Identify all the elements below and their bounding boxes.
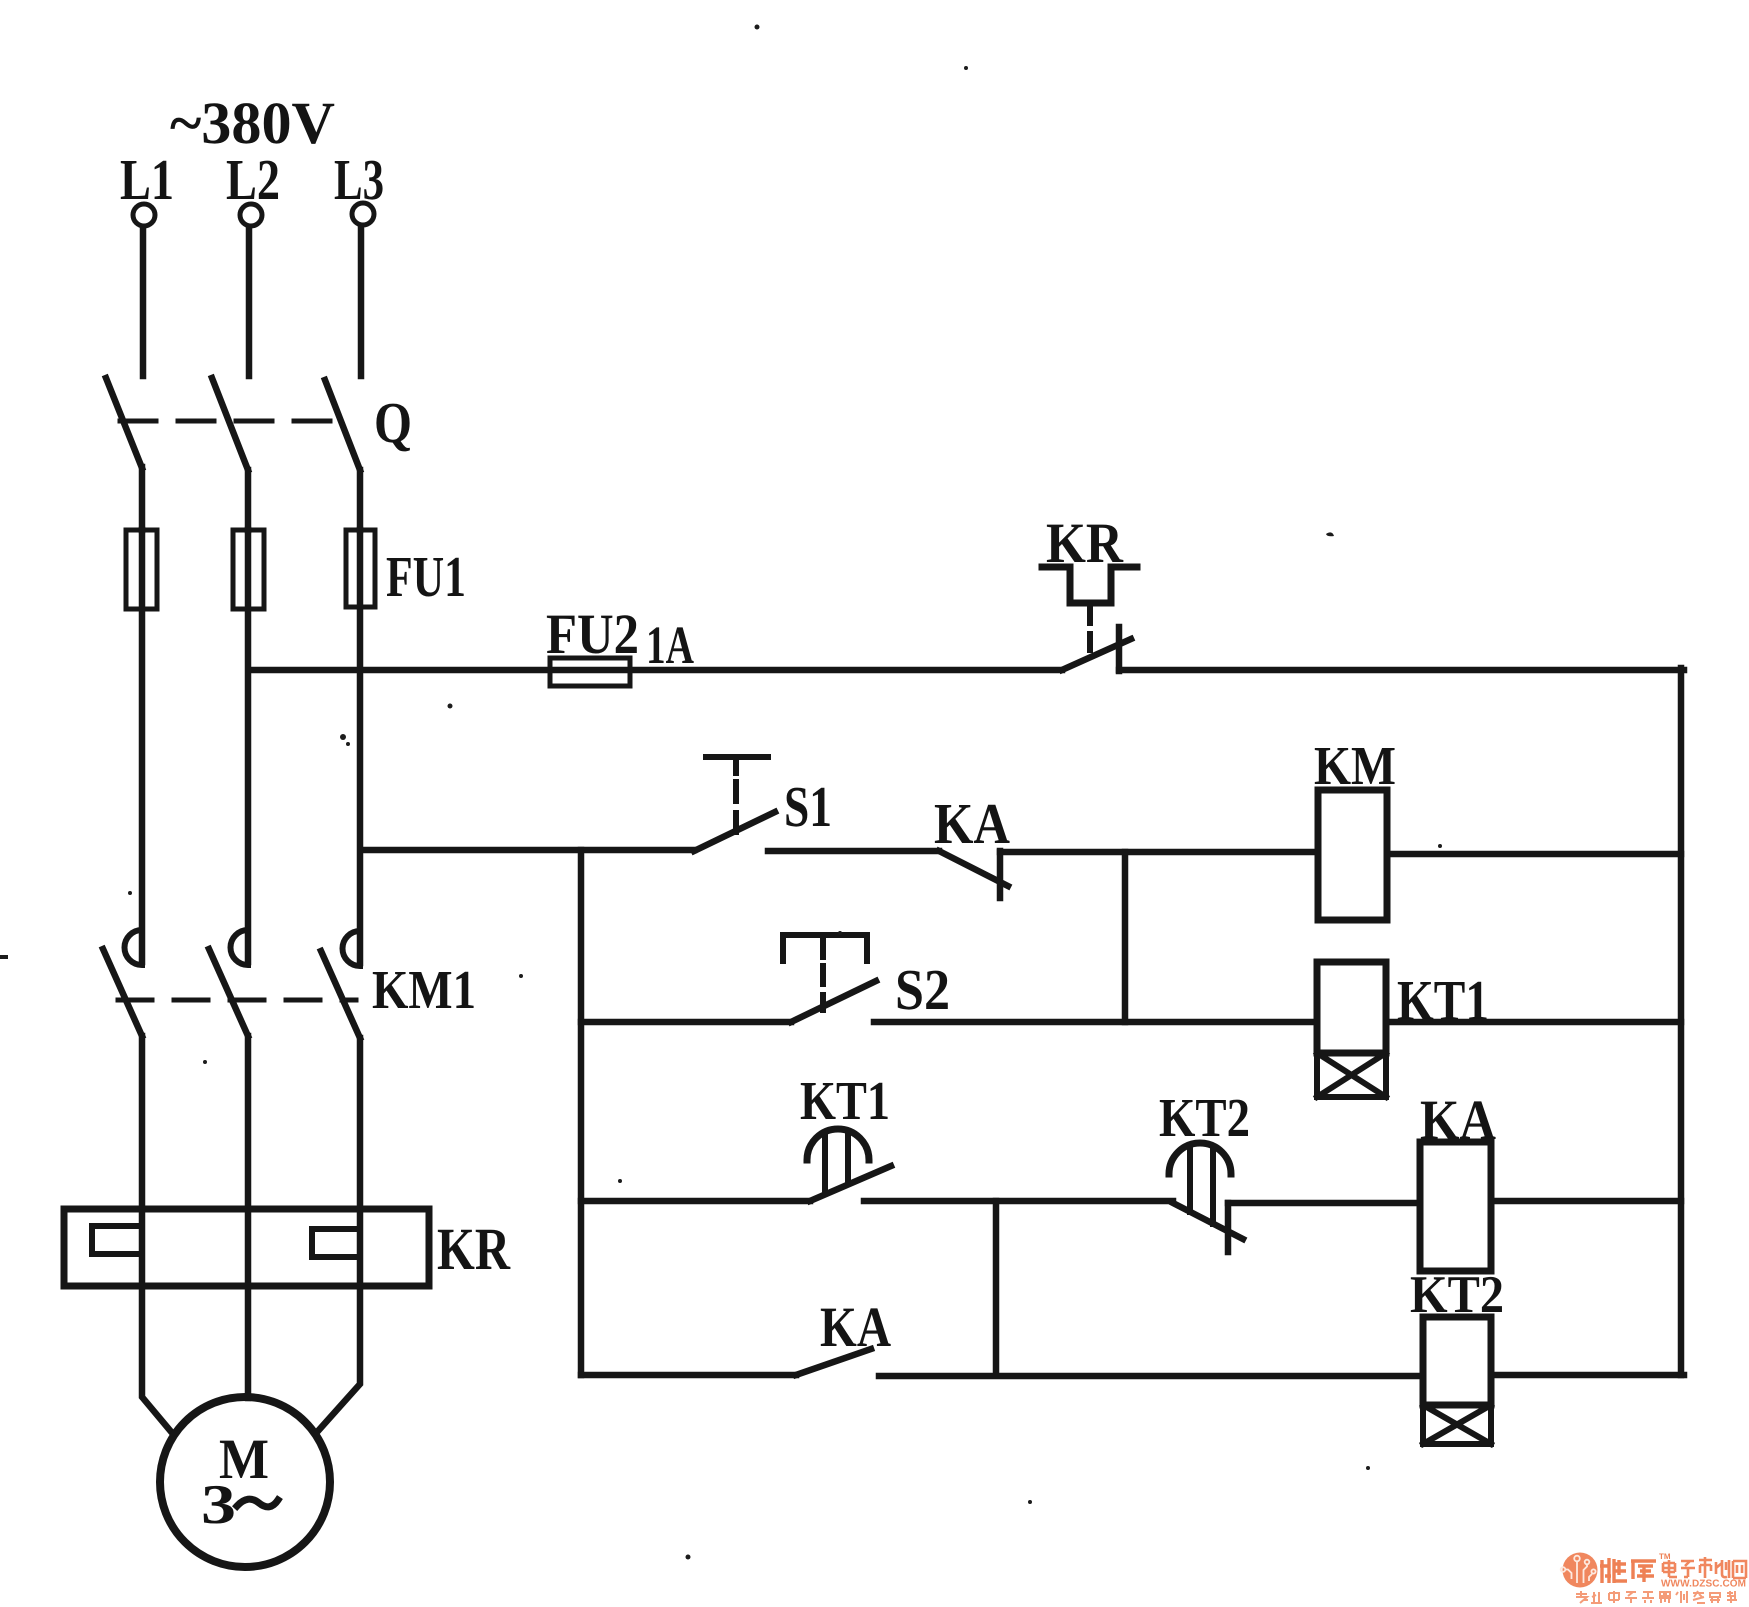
wire S1 row from L3 <box>361 847 694 854</box>
switch Q pole 2 blade <box>212 378 248 470</box>
svg-text:KA: KA <box>820 1296 891 1359</box>
svg-text:WWW.DZSC.COM: WWW.DZSC.COM <box>1661 1579 1746 1590</box>
watermark logo circle <box>1561 1553 1598 1588</box>
timed contact KT2 blade <box>1173 1203 1243 1239</box>
switch Q pole 3 blade <box>325 380 360 470</box>
wire L2 through KR box <box>245 1209 252 1286</box>
svg-text:TM: TM <box>1659 1552 1671 1561</box>
wire KT1 coil to right bus <box>1386 1019 1681 1026</box>
contact KR fixed point <box>1116 627 1123 671</box>
coil KT2 delay box <box>1423 1405 1491 1444</box>
coil KT2 <box>1423 1317 1491 1405</box>
wire left control vertical <box>578 850 585 1375</box>
svg-text:KM1: KM1 <box>372 959 476 1020</box>
label ~ (motor) <box>237 1499 278 1507</box>
fuse FU2 <box>550 658 630 686</box>
svg-text:FU2: FU2 <box>546 603 639 666</box>
terminal L3 <box>352 203 374 225</box>
contact KA NC blade (row 1) <box>939 851 1008 886</box>
pushbutton S1 plunger <box>706 757 768 773</box>
pushbutton S2 cap <box>783 935 867 961</box>
watermark text 维库 (approximated glyph strokes) <box>1600 1558 1656 1583</box>
contactor KM1 pole 1 fixed arc <box>124 930 142 965</box>
contact KA NO blade (row 4) <box>796 1349 871 1375</box>
wire L1 through KR box <box>139 1209 146 1286</box>
svg-text:Q: Q <box>374 390 412 455</box>
svg-text:S2: S2 <box>895 957 950 1022</box>
wire S1 to KA <box>768 848 939 855</box>
svg-text:KA: KA <box>934 791 1010 856</box>
wire L1 KM1 to KR box <box>139 1036 146 1209</box>
timed contact KT1 delay arc <box>807 1129 869 1160</box>
wire top control rail right <box>1119 667 1684 674</box>
pushbutton S1 dashed stem <box>733 782 739 836</box>
wire top control rail left <box>249 667 1062 674</box>
wire L1 below Q <box>139 467 146 530</box>
wire KA contact row left <box>581 1372 796 1379</box>
timed contact KT2 legs <box>1190 1147 1213 1224</box>
switch Q pole 1 blade <box>106 378 142 468</box>
wire L1 to motor <box>142 1286 173 1434</box>
fuse FU1 pole 1 <box>126 530 157 609</box>
svg-text:S1: S1 <box>784 774 832 839</box>
wire L2 to motor <box>245 1286 252 1398</box>
wire L1 top <box>140 227 147 376</box>
timed contact KT1 blade <box>810 1166 891 1201</box>
pushbutton S2 dashed stem <box>820 966 826 1010</box>
contact KR blade <box>1062 639 1131 670</box>
wire KM coil to right bus <box>1387 851 1681 858</box>
contactor KM1 pole 3 fixed arc <box>343 931 361 966</box>
contact KA NC fixed point <box>997 851 1004 898</box>
wire L3 KM1 to KR box <box>357 1038 364 1209</box>
coil KA <box>1420 1142 1491 1271</box>
wire junction vertical KM row to S2 row <box>1122 852 1129 1022</box>
thermal relay KR actuator paddle <box>1042 567 1137 603</box>
fuse FU1 pole 2 <box>233 530 264 609</box>
wire L2 KM1 to KR box <box>245 1036 252 1209</box>
motor M circle <box>160 1397 330 1567</box>
coil KT1 <box>1317 962 1386 1053</box>
switch Q linkage dashed <box>120 419 348 424</box>
wire KA contact to KT2 coil <box>879 1373 1423 1380</box>
coil KM <box>1318 790 1387 920</box>
contactor KM1 pole 2 blade <box>209 949 248 1036</box>
contactor KM1 linkage dashed <box>118 998 356 1003</box>
contactor KM1 pole 1 blade <box>103 949 142 1036</box>
svg-text:FU1: FU1 <box>386 544 466 609</box>
svg-text:1A: 1A <box>646 615 694 675</box>
wire L3 to motor <box>318 1286 360 1431</box>
timed contact KT2 delay arc <box>1169 1143 1231 1174</box>
terminal L1 <box>133 204 155 226</box>
wire KA to KM coil <box>1000 849 1318 856</box>
svg-text:3: 3 <box>201 1474 236 1536</box>
watermark text 电子市场网 (approximated glyph strokes) <box>1663 1557 1746 1578</box>
wire L2 top <box>246 227 253 376</box>
terminal L2 <box>240 204 262 226</box>
wire L3 below Q <box>357 470 364 530</box>
watermark slogan 专业电子元器件交易网站 (approximated glyph strokes) <box>1576 1591 1737 1603</box>
wire KA coil to right bus <box>1491 1198 1681 1205</box>
timed contact KT2 fixed point <box>1225 1203 1232 1252</box>
wire L3 fuse to KM1 <box>357 530 364 963</box>
wire S2 to KT1 coil <box>874 1019 1317 1026</box>
wire junction vertical row3 to row4 <box>993 1201 1000 1375</box>
svg-text:KR: KR <box>437 1216 511 1282</box>
svg-text:KT1: KT1 <box>800 1070 890 1131</box>
wire KT1 contact row left <box>581 1198 810 1205</box>
wire L2 below Q <box>245 470 252 530</box>
wire L3 through KR box <box>357 1209 364 1286</box>
wire KT2 coil to right bus <box>1491 1372 1684 1379</box>
coil KT1 delay box <box>1317 1053 1386 1097</box>
wire L1 fuse to KM1 <box>139 530 146 962</box>
wire KT2 contact to KA coil <box>1228 1200 1420 1207</box>
thermal relay KR dashed link <box>1087 607 1093 658</box>
pushbutton S1 blade <box>694 812 775 851</box>
thermal relay KR heater box <box>64 1209 429 1286</box>
wire S2 row left <box>581 1019 791 1026</box>
fuse FU1 pole 3 <box>346 530 375 607</box>
wire right vertical bus <box>1678 668 1685 1375</box>
wire L3 top <box>358 226 365 376</box>
pushbutton S2 blade <box>791 981 876 1022</box>
heater element pole 3 <box>312 1229 360 1257</box>
contactor KM1 pole 2 fixed arc <box>231 930 249 965</box>
scan specks <box>0 25 1442 1560</box>
wire L2 fuse to KM1 <box>245 530 252 962</box>
svg-text:KT2: KT2 <box>1159 1087 1250 1148</box>
contactor KM1 pole 3 blade <box>321 951 360 1038</box>
timed contact KT1 legs <box>825 1133 848 1193</box>
wire KT1 contact to KT2 contact <box>864 1198 1173 1205</box>
heater element pole 1 <box>92 1226 142 1254</box>
